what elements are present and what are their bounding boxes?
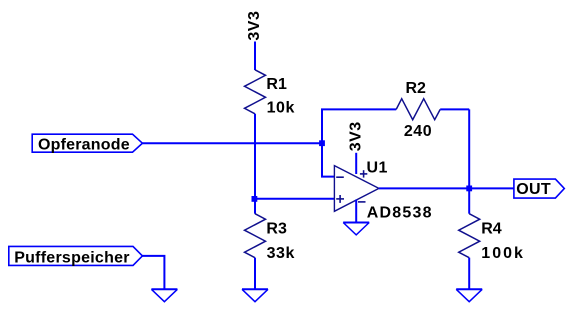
svg-text:33k: 33k [267, 245, 295, 262]
wire output node down to R4 [468, 188, 470, 213]
wire junction to R3 top [254, 199, 256, 214]
wire V- supply to ground [355, 200, 357, 223]
resistor R4 [459, 214, 480, 258]
wire R1 bottom to node junction [254, 114, 256, 199]
junction divider node [252, 196, 258, 202]
svg-text:AD8538: AD8538 [367, 205, 433, 222]
svg-text:100k: 100k [481, 245, 525, 262]
wire junction down toward op-amp inverting input [322, 143, 334, 176]
svg-text:R4: R4 [481, 221, 502, 238]
wire non-inverting input from divider node [255, 198, 334, 200]
wire output node to OUT flag [469, 187, 514, 189]
wire 3V3 stub to R1 top [254, 42, 256, 71]
resistor R2 [396, 99, 440, 120]
wire R2 left horizontal [321, 108, 396, 110]
flag OUT [514, 179, 564, 198]
flag Pufferspeicher [9, 246, 143, 265]
wire R4 bottom to ground [468, 258, 470, 290]
svg-text:Opferanode: Opferanode [38, 136, 130, 153]
wire op-amp output to output node [379, 187, 469, 189]
junction inverting node [319, 140, 325, 146]
junction output node [466, 186, 472, 192]
wire R2 down to output node [468, 109, 470, 188]
ground below R3 [242, 288, 268, 290]
ground below R4 [456, 288, 482, 290]
resistor R3 [245, 214, 266, 258]
wire junction up to R2 left [321, 109, 323, 143]
svg-text:3V3: 3V3 [246, 11, 263, 41]
wire Opferanode to inverting node [142, 142, 322, 144]
pin minus (inverting input) [336, 176, 344, 178]
wire Pufferspeicher to ground corner [142, 256, 164, 289]
wire R2 right horizontal [440, 108, 469, 110]
svg-text:R3: R3 [266, 221, 287, 238]
svg-text:OUT: OUT [516, 181, 551, 198]
svg-text:Pufferspeicher: Pufferspeicher [14, 249, 130, 266]
flag Opferanode [32, 134, 142, 152]
svg-text:3V3: 3V3 [347, 121, 364, 151]
wire R3 bottom to ground [254, 258, 256, 290]
svg-text:10k: 10k [267, 99, 295, 116]
pin V+ supply plus mark [360, 173, 367, 175]
pin plus (non-inverting input) [336, 198, 344, 200]
pin V- supply minus mark [358, 201, 366, 203]
svg-text:R2: R2 [406, 80, 427, 97]
ground below Pufferspeicher [151, 288, 177, 290]
wire V+ supply [355, 153, 357, 174]
svg-text:R1: R1 [266, 76, 287, 93]
svg-text:U1: U1 [367, 159, 388, 176]
ground below op-amp [343, 222, 369, 224]
op-amp U1 triangle [334, 166, 379, 212]
resistor R1 [245, 70, 266, 114]
svg-text:240: 240 [404, 123, 432, 140]
